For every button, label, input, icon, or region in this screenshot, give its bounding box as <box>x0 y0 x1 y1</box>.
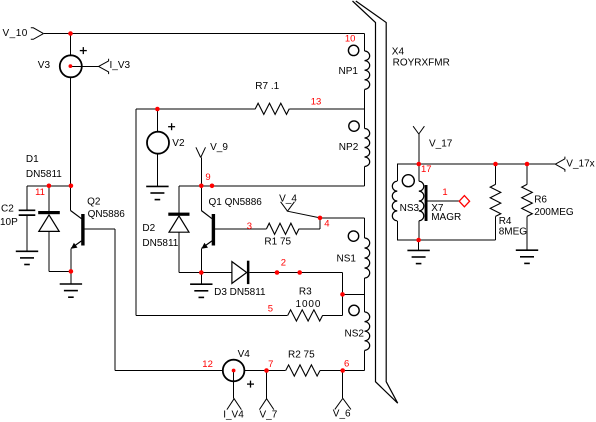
port V_6 <box>335 398 351 409</box>
port V_17 <box>413 126 424 134</box>
svg-text:10P: 10P <box>0 217 18 228</box>
wire NS1 top stub <box>364 218 366 238</box>
wire Q2 base down <box>114 229 116 371</box>
wire V_17 stem <box>418 134 420 164</box>
svg-text:DN5811: DN5811 <box>26 169 62 180</box>
svg-text:V4: V4 <box>238 349 251 360</box>
svg-text:R7 .1: R7 .1 <box>255 81 279 92</box>
wire R4 top stem <box>495 164 497 184</box>
wire R1 right <box>299 228 320 230</box>
ground Q1 D3 <box>190 284 212 297</box>
wire D2 bottom stem <box>178 232 180 272</box>
wire V_6 stem <box>342 371 344 399</box>
node dot R4 <box>493 162 498 167</box>
wire X7 ground net <box>397 239 495 241</box>
ground X7 <box>407 250 429 263</box>
svg-text:Q2: Q2 <box>87 196 101 207</box>
wire D2 top stem <box>178 186 180 213</box>
wire net V_10 top <box>43 33 364 35</box>
wire vertical node2 to node5 <box>342 273 344 316</box>
port V_17x <box>556 157 565 172</box>
wire net 3 Q1 base to R1 <box>215 228 267 230</box>
svg-text:R2 75: R2 75 <box>288 349 315 360</box>
svg-text:V3: V3 <box>38 60 51 71</box>
transistor Q2 <box>71 196 126 248</box>
transistor Q1 <box>201 197 262 249</box>
wire V2 top stem <box>156 109 158 132</box>
ground R6 <box>516 250 538 263</box>
wire R6 bottom stem <box>526 216 528 250</box>
wire X7 pin 1 <box>427 200 459 202</box>
svg-text:I_V3: I_V3 <box>110 60 131 71</box>
svg-text:NS3: NS3 <box>400 203 420 214</box>
wire NS2 top stub <box>364 294 366 312</box>
svg-text:11: 11 <box>35 187 45 198</box>
wire NP1 top stub <box>364 34 366 52</box>
svg-text:4: 4 <box>324 218 329 229</box>
node dot 9a <box>199 184 204 189</box>
transformer X4 winding NP1 <box>339 45 370 89</box>
wire to NS1 bottom <box>343 293 365 295</box>
wire D1 top stem <box>48 186 50 211</box>
svg-text:V_17x: V_17x <box>566 159 594 170</box>
transformer X4 winding NS1 <box>337 231 370 278</box>
svg-text:C2: C2 <box>1 203 14 214</box>
node dot Q2 ground <box>69 269 74 274</box>
node dot X7 ground <box>416 238 421 243</box>
wire I_V4 stem <box>233 371 235 399</box>
svg-text:V_7: V_7 <box>260 410 278 421</box>
wire V_9 stem <box>200 158 202 187</box>
wire net 9 <box>179 185 365 187</box>
diode D1 <box>26 154 62 231</box>
svg-text:V_10: V_10 <box>3 28 28 39</box>
port I_V4 <box>227 399 242 410</box>
wire ground stem X7 <box>418 240 420 250</box>
svg-text:Q1 QN5886: Q1 QN5886 <box>209 197 263 208</box>
wire C2 top stem <box>26 186 28 210</box>
wire NP2 bottom stub <box>364 167 366 187</box>
port V_4 <box>281 202 320 218</box>
wire NS2 bottom stub <box>364 350 366 370</box>
wire NS3 left top stub <box>396 164 398 181</box>
transformer X4 winding NS2 <box>345 305 370 350</box>
svg-text:V_6: V_6 <box>333 408 351 419</box>
wire node 11 <box>27 185 71 187</box>
ground C2 <box>16 251 38 264</box>
red node labels <box>35 34 448 370</box>
wire ground stem Q2 <box>70 271 72 284</box>
node dot 4 <box>318 216 323 221</box>
wire D2 to D3 <box>179 272 232 274</box>
node dot R6 <box>525 162 530 167</box>
source V2 <box>147 123 185 154</box>
transformer X4 core <box>353 1 398 403</box>
wire C2 bottom stem <box>26 215 28 251</box>
node dot 6 <box>340 368 345 373</box>
wire Q1 collector vertical <box>200 186 202 211</box>
diode D3 <box>214 261 266 299</box>
port V_7 <box>259 399 274 410</box>
node dot 9b <box>210 184 215 189</box>
wire node 6 to NS2 <box>343 370 365 372</box>
node dot 2b <box>297 270 302 275</box>
svg-text:V_17: V_17 <box>429 139 453 150</box>
svg-text:3: 3 <box>247 221 252 232</box>
node dot 17 <box>417 162 422 167</box>
svg-text:1000: 1000 <box>296 299 322 310</box>
wire D1 to ground node <box>49 270 71 272</box>
wire Q2 base <box>85 228 116 230</box>
wire net 13 left <box>136 108 255 110</box>
svg-text:V_4: V_4 <box>279 194 297 205</box>
svg-text:1: 1 <box>442 187 447 198</box>
wire Q2 emitter vertical <box>70 248 72 271</box>
resistor R3 <box>288 287 323 321</box>
transformer X4 winding NP2 <box>339 121 370 167</box>
junction dots red <box>47 31 530 373</box>
wire R2 to node 6 <box>320 370 343 372</box>
wire V3 bottom to Q2 collector <box>70 77 72 210</box>
wire net 17 <box>397 163 555 165</box>
port V_9 <box>196 147 206 157</box>
svg-text:D3 DN5811: D3 DN5811 <box>214 287 266 298</box>
wire NP2 top stub <box>364 109 366 129</box>
svg-text:8MEG: 8MEG <box>499 226 528 237</box>
svg-text:NS2: NS2 <box>345 328 365 339</box>
resistor R1 <box>264 223 299 247</box>
ground Q2 <box>60 284 82 297</box>
wire V_7 stem <box>266 371 268 399</box>
wire net 13 right <box>289 108 364 110</box>
node dot 11b <box>69 184 74 189</box>
node dot 7 <box>264 368 269 373</box>
source V3 <box>38 47 87 77</box>
svg-text:R3: R3 <box>299 287 312 298</box>
X7 pin 1 diamond <box>459 196 469 207</box>
svg-text:200MEG: 200MEG <box>534 207 574 218</box>
wire NS3 right bottom stub <box>418 221 420 240</box>
node dot NS1/NS2 <box>340 292 345 297</box>
svg-text:2: 2 <box>281 258 286 269</box>
svg-text:NS1: NS1 <box>337 253 357 264</box>
wire D3 to node 2 <box>249 272 342 274</box>
svg-text:MAGR: MAGR <box>431 212 461 223</box>
wire D1 bottom stem <box>48 231 50 271</box>
svg-text:DN5811: DN5811 <box>142 238 178 249</box>
wire node 4 to NS1 <box>320 217 365 219</box>
svg-text:9: 9 <box>205 172 210 183</box>
svg-text:V_9: V_9 <box>210 142 228 153</box>
wire V2 bottom stem <box>156 154 158 187</box>
svg-text:13: 13 <box>311 96 322 107</box>
node dot Q1 ground <box>199 270 204 275</box>
wire node7 to R2 <box>267 370 286 372</box>
svg-text:R1 75: R1 75 <box>264 237 291 248</box>
svg-text:R6: R6 <box>534 194 547 205</box>
wire box left vertical <box>135 109 137 315</box>
wire net 5 right <box>323 314 343 316</box>
svg-text:17: 17 <box>421 164 432 175</box>
transformer X7 core bar <box>425 185 428 221</box>
wire NS3 right top stub <box>418 164 420 181</box>
node dot 2a <box>275 270 280 275</box>
svg-text:NP1: NP1 <box>339 66 359 77</box>
diode D2 <box>142 213 189 250</box>
svg-text:7: 7 <box>268 359 273 370</box>
svg-text:D1: D1 <box>26 154 39 165</box>
wire NS3 left bottom stub <box>396 221 398 240</box>
wire V3 top stem <box>70 34 72 56</box>
wire NP1 bottom stub <box>364 89 366 109</box>
wire net 5 left <box>136 314 288 316</box>
wire Q1 emitter vertical <box>200 248 202 272</box>
svg-text:ROYRXFMR: ROYRXFMR <box>393 57 450 68</box>
wire node 4 vertical <box>319 218 321 229</box>
wire R4 bottom stem <box>495 216 497 240</box>
port I_V3 <box>99 59 109 74</box>
svg-text:10: 10 <box>345 34 356 45</box>
wire NS1 bottom stub <box>364 278 366 294</box>
svg-text:I_V4: I_V4 <box>223 410 244 421</box>
capacitor C2 <box>0 203 35 228</box>
svg-text:NP2: NP2 <box>339 142 359 153</box>
transformer X7 winding NS3 <box>392 175 424 221</box>
ground V2 <box>146 186 168 199</box>
node dot V_10/V3 <box>68 31 73 36</box>
wire V4 to node 7 <box>244 370 266 372</box>
svg-text:R4: R4 <box>499 216 512 227</box>
wire V3 to I_V3 <box>70 65 98 67</box>
node dot 13 V2 <box>155 107 160 112</box>
svg-text:D2: D2 <box>142 223 155 234</box>
svg-text:5: 5 <box>268 303 273 314</box>
port V_10 <box>31 28 44 40</box>
svg-text:12: 12 <box>202 359 213 370</box>
resistor R7 <box>255 81 289 114</box>
resistor R2 <box>286 349 320 376</box>
resistor R6 <box>522 184 574 218</box>
wire ground stem Q1 <box>200 273 202 285</box>
wire node 12 to V4 <box>115 370 223 372</box>
resistor R4 <box>490 184 527 237</box>
source V4 <box>223 349 254 388</box>
wire R6 top stem <box>526 164 528 184</box>
svg-text:X4: X4 <box>392 46 405 57</box>
svg-text:QN5886: QN5886 <box>88 209 126 220</box>
svg-text:6: 6 <box>344 358 349 369</box>
node dot 11a <box>47 184 52 189</box>
svg-text:V2: V2 <box>172 138 185 149</box>
